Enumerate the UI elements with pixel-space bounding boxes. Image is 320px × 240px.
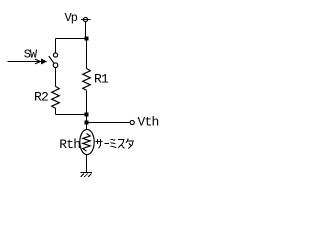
- svg-text:Vp: Vp: [65, 11, 78, 25]
- svg-text:R2: R2: [34, 89, 48, 104]
- svg-text:Rth: Rth: [59, 137, 80, 152]
- svg-text:R1: R1: [94, 72, 109, 87]
- svg-text:Vth: Vth: [138, 114, 159, 129]
- svg-text:SW: SW: [24, 48, 38, 62]
